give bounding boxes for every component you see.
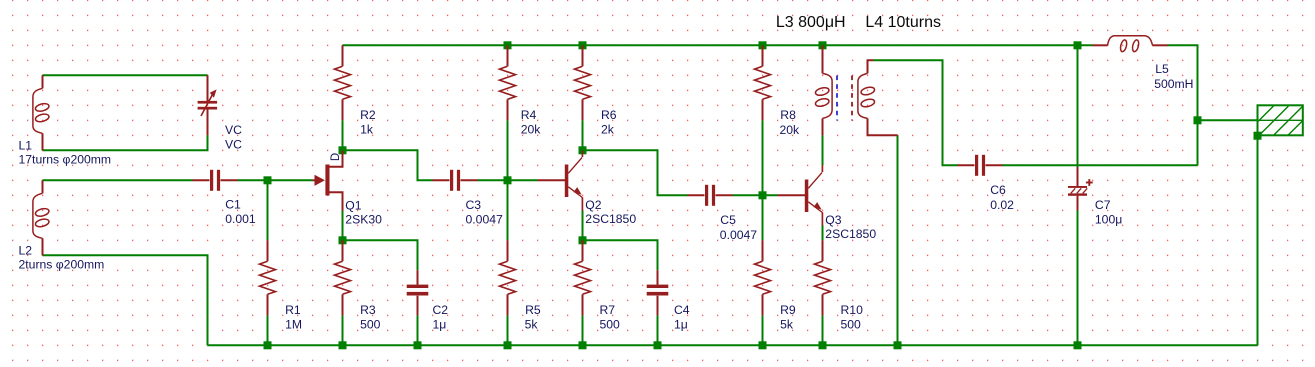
wire C3 to node B to Q2 base: [478, 179, 538, 181]
svg-text:C7: C7: [1095, 198, 1111, 212]
svg-text:C5: C5: [720, 213, 736, 227]
junction ground rail C2: [414, 341, 422, 349]
svg-text:R10: R10: [841, 303, 864, 317]
svg-text:17turns φ200mm: 17turns φ200mm: [19, 153, 112, 167]
capacitor C4: [647, 270, 669, 315]
svg-text:D: D: [330, 153, 342, 161]
junction Q2 emitter node: [579, 236, 587, 244]
svg-text:0.02: 0.02: [990, 198, 1014, 212]
wire L2 top to C1: [43, 179, 193, 181]
svg-text:5k: 5k: [780, 318, 794, 332]
wire antenna to ground rail: [1257, 136, 1259, 346]
resistor R6: [575, 45, 591, 120]
svg-text:1μ: 1μ: [433, 318, 447, 332]
capacitor C3: [433, 170, 478, 191]
svg-text:1k: 1k: [360, 123, 374, 137]
svg-text:R9: R9: [780, 303, 796, 317]
transformer core dashed line blue: [836, 76, 838, 121]
capacitor C7 electrolytic: [1068, 167, 1093, 210]
svg-text:R3: R3: [360, 303, 376, 317]
svg-text:500: 500: [360, 318, 381, 332]
wire R10 to ground rail: [822, 315, 824, 345]
svg-text:2SK30: 2SK30: [345, 212, 382, 226]
resistor R3: [335, 240, 351, 315]
resistor R4: [500, 45, 516, 120]
wire R2 to Q1 drain node: [342, 120, 344, 150]
svg-text:L1: L1: [19, 139, 33, 153]
svg-text:VC: VC: [225, 138, 242, 152]
svg-text:2turns φ200mm: 2turns φ200mm: [19, 258, 105, 272]
junction ground rail R9: [759, 341, 767, 349]
wire R5 to ground rail: [507, 315, 509, 345]
wire C5 to node C to Q3 base: [733, 194, 778, 196]
wire C2 to ground rail: [417, 315, 419, 345]
resistor R5: [500, 240, 516, 315]
wire node C down to R9: [762, 195, 764, 240]
svg-text:L5: L5: [1155, 62, 1169, 76]
wire node A down to R1: [267, 180, 269, 240]
junction Q1 drain node: [339, 146, 347, 154]
wire R9 to ground rail: [762, 315, 764, 345]
svg-text:R7: R7: [600, 303, 616, 317]
resistor R7: [575, 240, 591, 315]
junction ground rail R10: [819, 341, 827, 349]
svg-text:1μ: 1μ: [674, 318, 688, 332]
svg-text:Q3: Q3: [825, 213, 841, 227]
resistor R1: [260, 240, 276, 315]
inductor L5: [1093, 36, 1168, 53]
junction ground rail L4 return: [894, 341, 902, 349]
resistor R2: [335, 45, 351, 120]
svg-text:100μ: 100μ: [1095, 213, 1122, 227]
junction top rail R8: [759, 41, 767, 49]
svg-text:C6: C6: [990, 183, 1006, 197]
wire L1 top: [43, 74, 208, 76]
svg-text:2SC1850: 2SC1850: [825, 227, 876, 241]
svg-text:0.001: 0.001: [225, 212, 256, 226]
svg-text:2k: 2k: [601, 123, 615, 137]
svg-text:C2: C2: [433, 303, 449, 317]
wire emitter node to C4: [583, 240, 658, 270]
wire L4 top to C6: [874, 60, 958, 165]
capacitor C1: [193, 170, 238, 191]
junction top rail L3: [819, 41, 827, 49]
transistor Q2 (2SC1850): [538, 150, 583, 210]
svg-text:Q2: Q2: [585, 198, 601, 212]
resistor R9: [755, 240, 771, 315]
junction node C: [759, 191, 767, 199]
wire Q1 drain node to C3: [343, 150, 433, 180]
transformer core dashed line red: [851, 76, 853, 121]
junction antenna feed node: [1194, 116, 1202, 124]
wire L3 to Q3 collector: [822, 135, 824, 165]
wire L4 bottom return to ground rail: [897, 135, 899, 345]
junction ground rail R7: [579, 341, 587, 349]
wire R1 to ground rail: [267, 315, 269, 345]
svg-text:VC: VC: [225, 123, 242, 137]
svg-text:R6: R6: [601, 108, 617, 122]
capacitor C5: [688, 185, 733, 206]
inductor L3 transformer primary: [815, 45, 832, 135]
svg-text:20k: 20k: [780, 123, 801, 137]
junction antenna ground corner: [1254, 132, 1262, 140]
wire L1 bottom: [43, 135, 208, 150]
junction top rail R4: [504, 41, 512, 49]
svg-text:20k: 20k: [521, 123, 542, 137]
junction Q2 collector node: [579, 146, 587, 154]
junction ground rail C7: [1074, 341, 1082, 349]
svg-text:0.0047: 0.0047: [466, 212, 503, 226]
junction ground rail R5: [504, 341, 512, 349]
resistor R8: [755, 45, 771, 120]
junction node A: [264, 176, 272, 184]
svg-text:2SC1850: 2SC1850: [585, 212, 636, 226]
junction ground rail R3: [339, 341, 347, 349]
svg-text:Q1: Q1: [345, 199, 361, 213]
wire C1 to node A to Q1 gate: [238, 179, 313, 181]
variable capacitor VC: [198, 75, 218, 135]
svg-text:500: 500: [600, 318, 621, 332]
svg-text:C4: C4: [674, 303, 690, 317]
wire antenna feed: [1198, 119, 1258, 121]
wire Q3 emitter to R10: [822, 226, 824, 241]
svg-text:R4: R4: [521, 108, 537, 122]
wire top rail right of L5: [1168, 45, 1198, 165]
transistor Q1 (JFET 2SK30): [313, 151, 343, 211]
wire node B down to R5: [507, 180, 509, 240]
wire source node to C2: [343, 240, 418, 270]
inductor L2: [33, 180, 50, 255]
svg-text:0.0047: 0.0047: [720, 228, 757, 242]
wire R8 down to node C: [762, 120, 764, 195]
junction Q1 source node: [339, 236, 347, 244]
wire C4 to ground rail: [657, 315, 659, 345]
junction ground rail C4: [654, 341, 662, 349]
wire C7 top from rail: [1077, 45, 1079, 170]
transistor Q3 (2SC1850): [778, 165, 823, 225]
svg-text:R2: R2: [360, 108, 376, 122]
svg-text:R8: R8: [780, 108, 796, 122]
junction node B: [504, 176, 512, 184]
svg-text:1M: 1M: [285, 318, 302, 332]
svg-text:L3 800μH: L3 800μH: [776, 14, 846, 31]
wire top power rail: [343, 44, 1093, 46]
resistor R10: [815, 240, 831, 315]
wire bottom ground rail: [208, 344, 1258, 346]
wire C7 bottom to ground rail: [1077, 210, 1079, 345]
junction top rail C7: [1074, 41, 1082, 49]
svg-text:L4 10turns: L4 10turns: [865, 14, 941, 31]
svg-text:500mH: 500mH: [1154, 77, 1193, 91]
wire C6 to L5 tank node: [1003, 164, 1198, 166]
svg-text:500: 500: [841, 318, 862, 332]
junction top rail R6: [579, 41, 587, 49]
wire Q2 collector node to C5: [583, 150, 688, 195]
svg-text:C1: C1: [225, 198, 241, 212]
svg-text:C3: C3: [466, 198, 482, 212]
wire L2 bottom to ground rail: [43, 255, 208, 345]
antenna load box: [1258, 105, 1303, 135]
svg-text:R1: R1: [285, 303, 301, 317]
svg-text:R5: R5: [525, 303, 541, 317]
svg-text:L2: L2: [19, 244, 33, 258]
wire R4 down to node B: [507, 120, 509, 180]
wire Q1 source to source node: [342, 210, 344, 240]
wire Q2 emitter to emitter node: [582, 211, 584, 241]
svg-text:5k: 5k: [525, 318, 539, 332]
wire R7 to ground rail: [582, 315, 584, 345]
junction ground rail R1: [264, 341, 272, 349]
inductor L1: [33, 75, 50, 150]
capacitor C6: [958, 155, 1003, 176]
inductor L4 transformer secondary: [858, 60, 898, 135]
wire R3 to ground rail: [342, 315, 344, 345]
wire R6 to Q2 collector node: [582, 120, 584, 150]
capacitor C2: [407, 270, 429, 315]
